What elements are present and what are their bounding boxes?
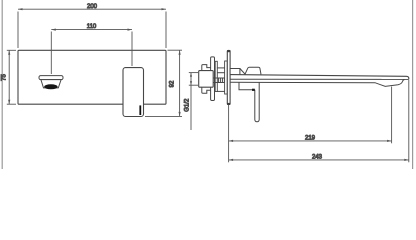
handle front view [123,68,144,117]
lever fillet mark [252,89,255,91]
spout (side view) top edge [230,75,409,80]
mixer dome (lever pivot cover) [245,67,261,74]
svg-text:243: 243 [312,154,323,160]
spout body trapezoid front view [41,80,61,88]
mixer body low block (side view) [230,69,240,75]
spout underside with aerator notch [230,80,404,87]
dimension 219 [229,87,392,144]
connector rod bottom [217,90,225,92]
plate flange (side view) [225,61,228,94]
dimension 243 [229,80,409,162]
G1/2 connection dimension [189,73,198,130]
valve stem (side view) [211,57,215,101]
spout flange front view [39,76,63,80]
svg-text:G1/2: G1/2 [185,98,191,112]
svg-text:75: 75 [2,74,8,81]
wall plate top cap [227,50,230,52]
valve body (side view) [199,71,214,88]
dimension 92 [145,50,182,116]
dimension 75 [7,50,16,104]
wall plate bottom cap [227,103,230,105]
right page border [412,0,414,169]
dimension 110 [51,29,132,75]
body under spout [239,82,255,89]
handle groove mark [139,105,141,115]
connector nut line [217,72,227,74]
svg-text:219: 219 [305,135,316,141]
svg-text:110: 110 [87,24,97,30]
valve top step [202,65,211,71]
left page border [1,0,3,169]
lever handle (side view) [255,83,259,122]
mounting bracket [215,61,217,91]
supply pipe with thread hatching [213,78,227,83]
wall plate front view [18,50,166,104]
connector rod top [217,67,225,69]
spout mid line [230,78,409,80]
dimension 200 [18,8,166,48]
wall plate (side view) [227,50,230,104]
svg-text:92: 92 [170,80,176,87]
valve bottom step [202,87,211,93]
spout outlet opening (dark ellipse) [44,84,57,89]
svg-text:200: 200 [87,4,98,10]
mixer body wedge [240,69,245,75]
